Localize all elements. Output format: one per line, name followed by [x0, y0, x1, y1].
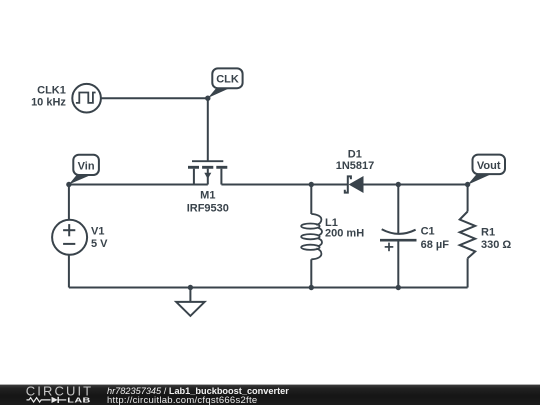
wire: C1 top stub: [397, 185, 399, 234]
wire: R1 bottom stub: [467, 258, 469, 287]
wire: L1 bottom stub: [310, 259, 312, 287]
diode D1 schottky: [345, 176, 364, 193]
junction dot Vout node: [465, 182, 470, 187]
svg-text:IRF9530: IRF9530: [187, 203, 229, 215]
svg-text:200 mH: 200 mH: [325, 227, 364, 239]
transistor M1 PMOS: [188, 161, 227, 184]
wire: C1 bottom stub: [397, 240, 399, 287]
svg-text:Vout: Vout: [477, 160, 501, 172]
svg-text:LAB: LAB: [67, 396, 90, 404]
node Vin flag: [69, 155, 99, 185]
svg-text:1N5817: 1N5817: [336, 160, 375, 172]
wire: V1 minus to bottom rail: [68, 255, 70, 288]
clock source CLK1: [72, 84, 101, 113]
junction dot C1 top: [396, 182, 401, 187]
svg-text:5 V: 5 V: [91, 238, 108, 250]
svg-text:10 kHz: 10 kHz: [31, 97, 66, 109]
svg-text:330 Ω: 330 Ω: [481, 239, 511, 251]
inductor L1: [301, 214, 322, 259]
junction dot L1 bottom: [309, 285, 314, 290]
junction dot Vin node: [66, 182, 71, 187]
wire: CLK node to M1 gate: [207, 98, 209, 161]
wire: C1 node to Vout node: [398, 184, 467, 186]
junction dot ground: [188, 285, 193, 290]
wire: bottom rail: [69, 287, 468, 289]
wire: L1 node to D1 cathode: [311, 184, 348, 186]
resistor R1: [460, 212, 476, 259]
svg-text:Vin: Vin: [78, 160, 95, 172]
svg-text:CLK: CLK: [216, 74, 239, 86]
junction dot CLK node: [205, 96, 210, 101]
wire: M1 drain to L1 node: [221, 184, 311, 186]
svg-text:CLK1: CLK1: [37, 85, 66, 97]
wire: R1 top stub: [467, 185, 469, 212]
svg-text:D1: D1: [348, 149, 362, 161]
ground: [176, 288, 204, 316]
wire: Vin node down to V1 plus: [68, 185, 70, 221]
junction dot L1 top: [309, 182, 314, 187]
wire: CLK1 output to CLK node: [101, 97, 208, 99]
svg-text:C1: C1: [421, 226, 435, 238]
svg-text:M1: M1: [200, 190, 215, 202]
node CLK flag: [208, 68, 243, 98]
svg-text:68 µF: 68 µF: [421, 239, 450, 251]
svg-text:V1: V1: [91, 226, 104, 238]
capacitor C1 polarized: [380, 229, 417, 251]
voltage source V1: [52, 220, 87, 255]
wire: D1 anode to C1 node: [364, 184, 399, 186]
svg-text:http://circuitlab.com/cfqst666: http://circuitlab.com/cfqst666s2fte: [107, 395, 257, 405]
junction dot C1 bottom: [396, 285, 401, 290]
wire: top rail Vin to M1 source: [69, 184, 208, 186]
node Vout flag: [468, 155, 505, 185]
wire: L1 top stub: [310, 185, 312, 215]
footer bar: [0, 385, 540, 405]
CircuitLab logo: [26, 384, 93, 404]
svg-text:R1: R1: [481, 227, 495, 239]
